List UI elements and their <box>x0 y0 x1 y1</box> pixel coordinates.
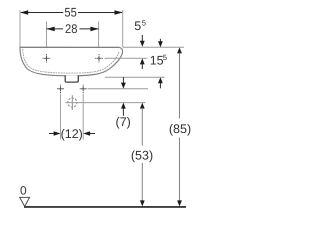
svg-text:5: 5 <box>142 19 146 28</box>
dimension (85) line <box>177 47 182 53</box>
dimension (12) extension line right <box>82 94 84 140</box>
dimension (12) extension line left <box>60 94 62 140</box>
dimension 15.5 lower arrow <box>158 77 163 83</box>
svg-text:(53): (53) <box>131 149 153 163</box>
dimension 55 arrowhead right <box>115 10 123 15</box>
svg-text:(7): (7) <box>116 115 131 129</box>
washbasin outline <box>20 47 123 76</box>
leader line from trap level to right <box>65 102 145 104</box>
svg-text:5: 5 <box>134 19 141 33</box>
leader line C from bowl bottom to right <box>105 76 165 78</box>
dimension 55 extension line right <box>122 10 124 47</box>
dimension (7) upper arrow <box>122 77 124 83</box>
washbasin inner bowl hidden edge (dotted) <box>23 49 119 73</box>
dimension 55 extension line left <box>19 10 21 47</box>
svg-text:(85): (85) <box>169 122 191 136</box>
drain outlet stub <box>65 75 78 82</box>
dimension 5.5 lower arrow <box>140 58 145 64</box>
dimension 55 line <box>21 12 122 14</box>
dimension 28 extension line right <box>98 22 100 55</box>
dimension 55 arrowhead left <box>20 10 28 15</box>
supply connection cross right <box>80 85 87 93</box>
svg-text:(12): (12) <box>61 127 83 141</box>
svg-text:28: 28 <box>65 22 77 36</box>
dimension (7) lower arrow <box>121 103 126 109</box>
dimension (53) line <box>140 103 145 109</box>
leader line from supply level to right <box>88 88 149 90</box>
leader line B from tap hole level to right <box>105 57 148 59</box>
floor line <box>24 206 186 208</box>
supply connection cross left <box>57 85 64 93</box>
tap hole cross left <box>43 54 51 62</box>
dimension (12) left arrow <box>49 133 54 135</box>
dimension 5.5 upper arrow <box>141 35 143 42</box>
tap hole cross right <box>95 54 103 62</box>
datum triangle <box>20 197 30 206</box>
dimension (12) right arrow <box>83 131 90 135</box>
svg-text:5: 5 <box>163 53 167 62</box>
leader line A from rim top to right <box>123 46 184 48</box>
dimension 28 extension line left <box>46 22 48 55</box>
svg-text:55: 55 <box>64 6 76 20</box>
dimension 28 line <box>47 28 99 30</box>
svg-text:0: 0 <box>20 184 27 198</box>
washbasin top rim edge <box>20 46 120 48</box>
svg-text:15: 15 <box>150 54 164 68</box>
dimension 15.5 upper arrow <box>159 39 161 42</box>
trap connection symbol (dashed circle with crosshair) <box>68 98 77 107</box>
dimension 28 arrowhead left <box>47 27 55 32</box>
dimension 28 arrowhead right <box>90 27 98 32</box>
